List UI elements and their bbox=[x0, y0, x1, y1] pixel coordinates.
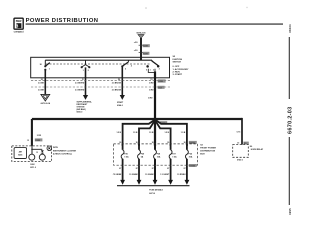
front power distribution dashed box bbox=[114, 144, 198, 165]
svg-text:2.5 BK: 2.5 BK bbox=[38, 90, 45, 92]
svg-text:1.5 GN/BK: 1.5 GN/BK bbox=[129, 174, 138, 176]
title underline bbox=[26, 23, 283, 25]
fuse F2 bbox=[138, 144, 145, 165]
contact 30 bbox=[40, 60, 51, 71]
ignition rotary switch bbox=[146, 60, 160, 72]
svg-text:2 RD: 2 RD bbox=[37, 135, 42, 137]
svg-text:30A: 30A bbox=[189, 156, 193, 159]
svg-text:15A: 15A bbox=[157, 156, 161, 159]
start label bbox=[117, 101, 124, 107]
right margin line upper bbox=[288, 37, 290, 99]
gray connector code bottom right bbox=[189, 164, 197, 167]
svg-text:1.5 RD/BU: 1.5 RD/BU bbox=[177, 174, 186, 176]
svg-text:BAG: BAG bbox=[18, 153, 23, 156]
wire from contact R bbox=[85, 67, 87, 95]
horn relay dashed box bbox=[233, 145, 249, 158]
diode bbox=[41, 150, 44, 153]
svg-text:30: 30 bbox=[40, 64, 43, 66]
left drop to cluster bbox=[31, 119, 33, 146]
svg-text:BOX: BOX bbox=[200, 154, 205, 156]
svg-text:6740.0: 6740.0 bbox=[237, 159, 243, 162]
svg-text:6670.2-03: 6670.2-03 bbox=[287, 107, 293, 134]
svg-text:FUSE DETAILS: FUSE DETAILS bbox=[149, 189, 163, 192]
svg-text:WITH: WITH bbox=[53, 147, 59, 149]
svg-text:F29: F29 bbox=[141, 154, 145, 156]
internal bus wire bbox=[45, 59, 152, 61]
svg-text:1: 1 bbox=[150, 69, 151, 71]
wire code labels row2 bbox=[38, 89, 154, 100]
wire splice to fuse 2 bbox=[139, 120, 155, 146]
connector ticks on battery wire bbox=[139, 44, 144, 46]
svg-text:.75 GN/BK: .75 GN/BK bbox=[113, 174, 122, 176]
svg-text:2: 2 bbox=[131, 66, 133, 68]
harness dashed line 2 bbox=[31, 86, 170, 88]
ignition switch legend bbox=[173, 56, 189, 76]
svg-text:3: START: 3: START bbox=[173, 73, 183, 76]
ignition output wire bbox=[154, 72, 156, 121]
svg-text:30: 30 bbox=[167, 142, 169, 144]
svg-text:INSTRUMENT CLUSTER: INSTRUMENT CLUSTER bbox=[53, 150, 77, 152]
arrow wire R bbox=[83, 95, 88, 100]
pin labels below fuse box bbox=[119, 168, 185, 170]
svg-text:(CHECK CONTROL): (CHECK CONTROL) bbox=[53, 154, 72, 156]
svg-text:1.5 GN/BK: 1.5 GN/BK bbox=[145, 174, 154, 176]
svg-text:HORN RELAY: HORN RELAY bbox=[251, 148, 264, 151]
svg-text:1: ACCESSORY: 1: ACCESSORY bbox=[173, 68, 189, 71]
svg-text:1.5 B: 1.5 B bbox=[164, 132, 169, 134]
svg-text:0.75: 0.75 bbox=[237, 131, 241, 133]
svg-text:6211.0: 6211.0 bbox=[30, 167, 36, 169]
svg-text:X1022: X1022 bbox=[189, 165, 196, 167]
svg-text:K6: K6 bbox=[250, 146, 252, 148]
svg-text:S2: S2 bbox=[200, 145, 203, 147]
arrow fuse 2 output bbox=[137, 180, 142, 185]
svg-text:1.5 B: 1.5 B bbox=[149, 132, 154, 134]
wire from contact 30 bbox=[44, 70, 46, 95]
cluster option icon bbox=[47, 146, 52, 151]
svg-text:87: 87 bbox=[152, 168, 154, 170]
svg-text:2.5 BK/GN: 2.5 BK/GN bbox=[112, 83, 122, 85]
svg-text:1: 1 bbox=[83, 70, 85, 72]
cluster internal wiring bbox=[31, 149, 33, 151]
gauge circle 1 bbox=[29, 154, 35, 160]
svg-text:2.5 BK/GN: 2.5 BK/GN bbox=[112, 90, 122, 92]
fuse details rule bbox=[117, 185, 190, 187]
connector X9 label bbox=[243, 142, 248, 145]
wire fuse 1 output bbox=[122, 165, 124, 180]
svg-text:+30: +30 bbox=[134, 42, 138, 44]
wire fuse 3 output bbox=[154, 165, 156, 180]
wire splice to fuse 3 bbox=[154, 119, 156, 146]
wire labels above fuse box bbox=[116, 132, 185, 134]
svg-text:SWITCH: SWITCH bbox=[173, 62, 182, 64]
svg-text:7.5A: 7.5A bbox=[124, 156, 129, 159]
svg-text:POWER DISTRIBUTION: POWER DISTRIBUTION bbox=[26, 18, 99, 24]
scan speck top bbox=[145, 7, 147, 9]
arrow fuse 4 output bbox=[168, 180, 173, 185]
wire fuse 2 output bbox=[138, 165, 140, 180]
svg-text:6606.0: 6606.0 bbox=[77, 111, 83, 113]
BMW compact logo bbox=[14, 18, 24, 33]
contact R bbox=[81, 60, 91, 72]
right margin line lower bbox=[288, 137, 290, 205]
svg-text:2: 2 bbox=[88, 70, 90, 72]
svg-text:30: 30 bbox=[136, 142, 138, 144]
gray connector labels battery wire bbox=[143, 44, 150, 47]
svg-text:87: 87 bbox=[119, 168, 121, 170]
instrument cluster dashed box bbox=[12, 146, 52, 162]
ignition switch box bbox=[31, 57, 170, 78]
wire splice to fuse 4 bbox=[155, 120, 171, 146]
wire drop to horn relay bbox=[241, 118, 243, 145]
svg-text:2: RUN: 2: RUN bbox=[173, 72, 181, 74]
svg-text:AIR: AIR bbox=[19, 150, 23, 153]
svg-text:3: 3 bbox=[125, 69, 127, 71]
svg-text:5A: 5A bbox=[141, 156, 144, 159]
svg-text:1.5 B: 1.5 B bbox=[181, 132, 186, 134]
wire fuse 5 output bbox=[186, 165, 188, 180]
arrow wire 50 bbox=[120, 95, 125, 100]
svg-text:87: 87 bbox=[167, 168, 169, 170]
splice gray label bbox=[160, 121, 167, 124]
svg-text:7.5A: 7.5A bbox=[172, 156, 177, 159]
svg-text:30: 30 bbox=[119, 142, 121, 144]
svg-text:S2: S2 bbox=[173, 56, 176, 58]
junction dot bbox=[154, 118, 157, 121]
arrow fuse 5 output bbox=[185, 180, 190, 185]
svg-text:compact: compact bbox=[14, 30, 24, 33]
gauge circle 2 bbox=[39, 154, 45, 160]
SRS label bbox=[77, 101, 93, 114]
fuse box legend bbox=[200, 145, 216, 156]
svg-text:F28: F28 bbox=[157, 154, 161, 156]
pin labels below box bbox=[41, 79, 153, 81]
svg-text:30: 30 bbox=[152, 142, 154, 144]
pin labels above fuse box bbox=[119, 142, 185, 144]
svg-text:0: OFF: 0: OFF bbox=[173, 66, 180, 68]
svg-text:6670.0-04: 6670.0-04 bbox=[41, 102, 51, 105]
svg-text:6673.0: 6673.0 bbox=[149, 193, 155, 195]
cluster label bbox=[53, 147, 77, 156]
svg-text:0: 0 bbox=[146, 69, 147, 71]
svg-text:4 RD: 4 RD bbox=[149, 82, 154, 85]
svg-text:30234: 30234 bbox=[288, 24, 292, 33]
svg-text:DISTRIBUTION: DISTRIBUTION bbox=[200, 151, 215, 153]
svg-text:3: 3 bbox=[159, 69, 160, 71]
fuse F3 bbox=[154, 144, 161, 165]
arrow fuse 1 output bbox=[120, 180, 125, 185]
gray connector code top right bbox=[189, 141, 197, 144]
svg-text:2: 2 bbox=[153, 69, 154, 71]
battery feed triangle bbox=[137, 34, 144, 38]
battery wire bbox=[140, 38, 142, 60]
svg-text:6144.0: 6144.0 bbox=[117, 104, 123, 107]
svg-text:F26: F26 bbox=[189, 154, 193, 156]
svg-text:IGNITION: IGNITION bbox=[173, 59, 183, 61]
gray connector labels right of ignition wire bbox=[158, 79, 166, 82]
fuse F4 bbox=[169, 144, 177, 165]
arrow fuse 3 output bbox=[153, 180, 158, 185]
svg-text:START: START bbox=[117, 101, 124, 104]
svg-text:15: 15 bbox=[36, 152, 38, 154]
wire fuse 4 output bbox=[170, 165, 172, 180]
inner module box bbox=[14, 148, 26, 159]
fuse F5 bbox=[185, 144, 192, 165]
svg-text:1.5 B: 1.5 B bbox=[133, 132, 138, 134]
svg-text:F30: F30 bbox=[124, 154, 128, 156]
wire from contact 50 bbox=[121, 66, 123, 95]
fuse F1 bbox=[121, 144, 129, 165]
svg-text:15: 15 bbox=[27, 140, 29, 142]
svg-text:30: 30 bbox=[184, 142, 186, 144]
svg-text:1.5 GN/WT: 1.5 GN/WT bbox=[160, 174, 170, 176]
wire code labels row1 bbox=[38, 82, 154, 85]
harness dashed line 1 bbox=[31, 79, 170, 81]
svg-text:87: 87 bbox=[184, 168, 186, 170]
off-page arrow wire 30 bbox=[41, 94, 51, 104]
svg-text:3: 3 bbox=[16, 24, 19, 29]
gray connector label bbox=[35, 138, 43, 141]
wire splice to fuse 1 bbox=[123, 120, 155, 146]
svg-text:+30: +30 bbox=[134, 50, 138, 52]
wire splice to fuse 5 bbox=[155, 120, 187, 146]
svg-text:4 RD: 4 RD bbox=[149, 89, 154, 92]
svg-text:BMW: BMW bbox=[16, 21, 23, 23]
svg-text:F27: F27 bbox=[172, 154, 176, 156]
svg-text:2.5 BK/RD: 2.5 BK/RD bbox=[75, 83, 85, 85]
svg-text:2.5 BK: 2.5 BK bbox=[38, 83, 45, 85]
svg-text:1.5 B: 1.5 B bbox=[116, 132, 121, 134]
main bus bbox=[32, 118, 242, 120]
svg-text:1995: 1995 bbox=[288, 208, 292, 215]
wire code labels below fuse box bbox=[113, 174, 187, 176]
svg-text:S302: S302 bbox=[30, 164, 34, 166]
svg-text:87: 87 bbox=[136, 168, 138, 170]
mechanical dashed link bbox=[46, 63, 150, 65]
contact 50 bbox=[121, 60, 133, 70]
svg-text:4 RD: 4 RD bbox=[148, 97, 153, 100]
svg-text:1: 1 bbox=[49, 68, 51, 70]
svg-text:FRONT POWER: FRONT POWER bbox=[200, 148, 216, 150]
svg-text:2.5 BK/RD: 2.5 BK/RD bbox=[75, 90, 85, 92]
